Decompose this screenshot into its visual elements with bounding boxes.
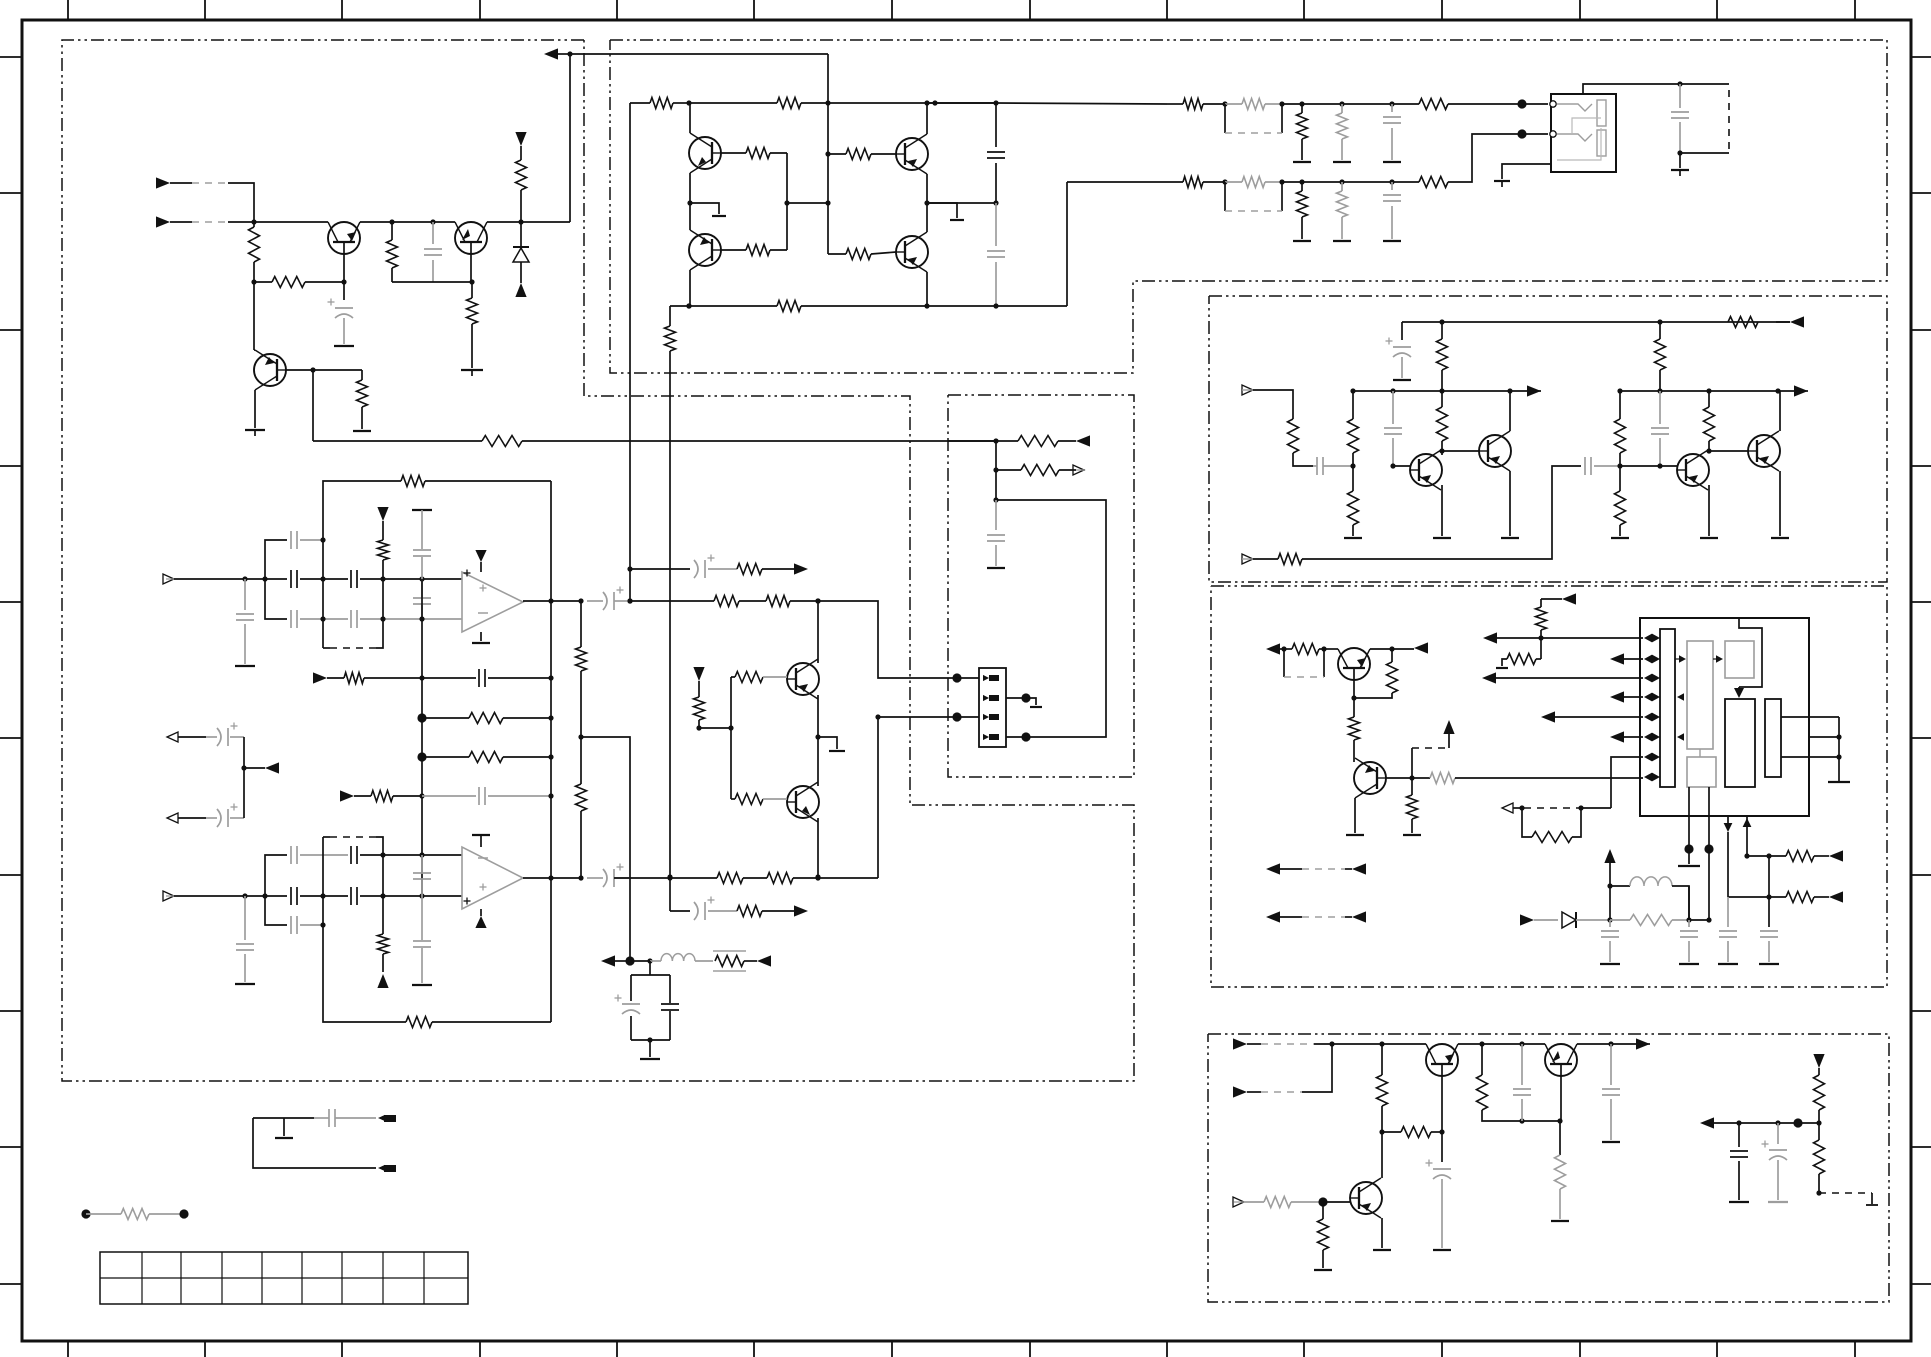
transistor Q3: [254, 354, 286, 386]
wire base node to bus: [787, 202, 828, 204]
resistor R75: [469, 713, 503, 724]
capacitor C14: [1659, 391, 1661, 424]
node E3: [1318, 1197, 1327, 1206]
stub Q5 gnd: [927, 203, 957, 218]
inductor L1: [1610, 885, 1630, 887]
input arrow E3: [1233, 1197, 1244, 1207]
dashed shield link: [1728, 90, 1730, 153]
capacitor C31: [1521, 1044, 1523, 1085]
bottom-left spare arrows: [1266, 863, 1280, 874]
wire Q9 emitter: [1509, 471, 1511, 536]
resistor R71: [378, 540, 389, 560]
pin arrows: [1644, 634, 1652, 643]
capacitor C5: [995, 103, 997, 147]
wire Q12 emitter: [1353, 680, 1355, 698]
wire in1 to corner: [228, 183, 254, 222]
input arrow F1: [163, 574, 174, 584]
ground bar C9: [1679, 153, 1681, 168]
wire Q7 collector: [926, 203, 928, 232]
right edge tick marks: [1911, 56, 1931, 58]
supply arrow E up: [1604, 849, 1615, 863]
capacitor C11: [1316, 457, 1318, 475]
arrow row6: [1610, 731, 1624, 742]
resistor R70: [401, 476, 425, 487]
arrow E right: [1700, 1117, 1714, 1128]
opamp gnd stem: [480, 632, 482, 641]
wire to Q12 base: [1324, 648, 1338, 650]
wire to jack R: [1522, 133, 1548, 135]
feedback top row: [323, 481, 401, 540]
arrow E in1: [1233, 1038, 1247, 1049]
arrow row3: [1482, 672, 1496, 683]
supply arrow up A2: [515, 283, 526, 297]
IC U1 inner block C: [1725, 699, 1755, 787]
arrow bias left: [601, 955, 615, 966]
resistor R25: [1183, 177, 1203, 188]
capacitor C65: [995, 500, 997, 530]
arrow D2 right: [1414, 642, 1428, 653]
resistor R95 link: [81, 1209, 90, 1218]
wire to Q16 base: [1323, 1201, 1350, 1203]
wire Q17 collector: [817, 601, 819, 663]
ground bar R48: [1403, 834, 1421, 836]
wire E rail3: [1577, 1043, 1639, 1045]
capacitor C22: [1760, 930, 1778, 932]
wire Q2 collector out: [487, 221, 521, 223]
IC U1 top link: [1739, 618, 1762, 687]
top edge tick marks: [67, 0, 69, 20]
ground bar Q2: [461, 369, 483, 371]
row F1c: [417, 752, 426, 761]
resistor R39: [1619, 466, 1621, 491]
wire rail to Q5 col: [935, 102, 996, 104]
grey row lower1: [265, 579, 287, 619]
wire U3 out: [523, 877, 581, 879]
row r2 resistor: [1728, 896, 1786, 898]
transistor Q11: [1748, 435, 1780, 467]
wire row2: [1067, 181, 1183, 183]
wire Q18 collector: [817, 737, 819, 786]
wire rail right: [828, 102, 935, 104]
resistor R21: [1242, 99, 1265, 110]
inner link E: [1699, 749, 1701, 757]
capacitor C75 polarized: [694, 560, 698, 578]
resistor R77: [580, 601, 582, 647]
capacitor C53: [350, 887, 352, 905]
capacitor C57 polarized: [603, 869, 607, 887]
resistor R63: [1559, 1121, 1561, 1155]
resistor R66: [1814, 1075, 1825, 1110]
resistor R61: [1382, 1131, 1401, 1133]
terminal bar C34: [1768, 1201, 1788, 1203]
wire out2: [614, 877, 717, 879]
resistor R16: [777, 301, 801, 312]
resistor R10: [650, 98, 673, 109]
transistor Q5: [896, 138, 928, 170]
wire Q2 emitter: [470, 254, 472, 282]
row5 wire: [1551, 716, 1643, 718]
diode D1: [520, 222, 522, 247]
resistor R74: [344, 673, 364, 684]
op-amp U3: [462, 847, 523, 909]
jack sleeve ground wire: [1502, 164, 1551, 179]
wire C-L out rail: [1353, 390, 1541, 392]
wire E right net: [1739, 1122, 1819, 1124]
resistor R50: [1540, 599, 1542, 607]
resistor R6: [361, 370, 363, 380]
resistor R13: [746, 245, 770, 256]
IC right stub1: [1781, 716, 1839, 718]
wire in1 dashed: [192, 182, 228, 184]
wire bus to Q7 base row: [828, 253, 846, 255]
dashed link row1: [1224, 104, 1226, 133]
wire E rail2: [1458, 1043, 1545, 1045]
resistor R22 shunt: [1297, 113, 1308, 139]
transistor Q15: [1545, 1044, 1577, 1076]
wire Q16 collector: [1381, 1132, 1383, 1178]
resistor R84: [371, 791, 393, 802]
wire to jack L: [1522, 103, 1548, 105]
bias RC box: [649, 961, 651, 975]
wire F2 in: [174, 895, 287, 897]
ground bar bias: [649, 1040, 651, 1057]
arrow D1 left: [1266, 643, 1280, 654]
IC right vertical: [1838, 717, 1840, 780]
wire Q3 collector lead: [254, 349, 256, 351]
terminal bar R6: [353, 430, 371, 432]
CN2 pin4: [989, 734, 999, 740]
supply arrow Q17: [693, 667, 704, 681]
block C boundary (line amp section): [1209, 296, 1887, 582]
capacitor C55: [350, 846, 352, 864]
wire Q8 emitter: [1441, 485, 1443, 536]
head in 1: [167, 732, 178, 742]
resistor R5: [516, 160, 527, 190]
dashed supply link: [1411, 748, 1413, 778]
arrow G2 open: [1073, 465, 1084, 475]
resistor R67: [1818, 1123, 1820, 1140]
input arrow C-R: [1242, 554, 1253, 564]
IC U1 top link arrow: [1734, 688, 1744, 698]
resistor R3: [391, 222, 393, 240]
jumper pin2: [384, 1165, 396, 1172]
capacitor C43: [350, 570, 352, 588]
jack pin circle L: [1550, 101, 1556, 107]
wire out to R72: [630, 600, 714, 602]
transistor Q16: [1350, 1182, 1382, 1214]
resistor R91: [996, 469, 1021, 471]
supply arrow down A1: [515, 132, 526, 146]
wire Q6 base: [721, 249, 746, 251]
IC right stub3: [1781, 756, 1839, 758]
wire Q3 base: [286, 369, 362, 371]
terminal bar C65: [987, 567, 1005, 569]
resistor R88: [737, 906, 762, 917]
wire B bottom rail: [670, 305, 777, 307]
wire Q11 emitter: [1779, 471, 1781, 536]
block B boundary (headphone amp section): [610, 40, 1887, 373]
terminal bar R23: [1333, 161, 1351, 163]
row F1a: [313, 672, 327, 683]
arrow C-R out: [1794, 385, 1808, 396]
resistor R81: [382, 855, 384, 934]
capacitor C8 shunt: [1391, 182, 1393, 190]
wire cap col r1: [1768, 856, 1770, 927]
resistor R47: [1353, 698, 1355, 717]
transistor Q8: [1410, 454, 1442, 486]
wire Q4 emitter: [689, 173, 691, 203]
capacitor C40: [244, 579, 246, 610]
resistor R52 loop: [1522, 808, 1532, 837]
wire G in row1: [948, 440, 996, 442]
terminal bar C40: [235, 665, 255, 667]
jack pin circle R: [1550, 131, 1556, 137]
resistor R17 tail: [669, 306, 671, 326]
wire G row2: [995, 441, 997, 470]
wire E rail1: [1332, 1043, 1426, 1045]
ground bar IC right: [1828, 781, 1850, 783]
row monitor R: [670, 910, 690, 912]
ground bar C10: [1393, 379, 1411, 381]
wire in2 dashed: [192, 221, 228, 223]
jack node R: [1517, 129, 1526, 138]
wire Q1 emitter: [343, 254, 345, 282]
wire Q9 collector: [1509, 391, 1511, 431]
wire C-R base: [1620, 465, 1677, 467]
capacitor C30 polarized: [1441, 1132, 1443, 1162]
capacitor C13: [1584, 457, 1586, 475]
transistor Q17: [787, 663, 819, 695]
resistor R53: [1610, 919, 1630, 921]
opamp2 gnd stem: [472, 834, 490, 836]
left edge tick marks: [0, 56, 22, 58]
resistor R46: [1391, 649, 1393, 662]
gnd jog Q17: [818, 737, 837, 749]
jumper pin1: [384, 1115, 396, 1122]
wire in2 to Q1 base: [254, 221, 328, 223]
arrow row5: [1541, 711, 1555, 722]
supply arrow F1: [377, 507, 388, 521]
IC U1 inner block D: [1765, 699, 1781, 777]
wire bottom rail right: [925, 305, 1067, 307]
wire Q5 collector: [926, 104, 928, 134]
resistor R32: [1659, 322, 1661, 339]
capacitor C63: [661, 1003, 679, 1005]
wire tail to lower: [669, 351, 671, 877]
wire E in1 dashed: [1261, 1043, 1314, 1045]
wire bias tie: [699, 727, 731, 729]
wire C top rail: [1402, 321, 1790, 323]
wire E in2 dashed: [1261, 1091, 1302, 1093]
block D boundary (control/IC section): [1211, 586, 1887, 987]
IC U1 inner block B: [1725, 641, 1754, 678]
inductor L2: [650, 960, 661, 962]
wire Q3 emitter: [254, 390, 256, 428]
resistor R7: [313, 440, 482, 442]
wire Q18 base row: [731, 798, 735, 800]
IC bottom pin1: [1688, 787, 1690, 849]
input arrow C-L: [1242, 385, 1253, 395]
capacitor C21: [1688, 920, 1690, 927]
resistor R27 shunt: [1297, 191, 1308, 217]
IC U1 outline: [1640, 618, 1809, 816]
bus vertical x828: [827, 54, 829, 254]
ground bar Q16: [1373, 1249, 1391, 1251]
transistor Q4: [689, 137, 721, 169]
IC U1 pin column: [1660, 629, 1675, 787]
arrow E out: [1636, 1038, 1650, 1049]
terminal bar R28: [1333, 240, 1351, 242]
ground bar R35: [1344, 537, 1362, 539]
dashed stub E: [1819, 1192, 1872, 1194]
resistor R24: [1419, 99, 1448, 110]
capacitor C44: [290, 610, 292, 628]
wire Q11 collector: [1779, 391, 1781, 431]
capacitor C58: [422, 795, 476, 797]
wire R3-C2 bottom: [392, 281, 472, 283]
arrow row1: [1483, 632, 1497, 643]
resistor R36: [1441, 391, 1443, 407]
capacitor C12: [1392, 391, 1394, 424]
terminal bar C7: [1383, 161, 1401, 163]
wire row1 to conn: [1282, 103, 1419, 105]
resistor R83: [767, 873, 793, 884]
wire G down: [995, 470, 997, 500]
ground bar R39: [1611, 537, 1629, 539]
wire Q3 collector: [253, 282, 255, 350]
wire Q17 base row: [731, 676, 735, 678]
resistor R72: [714, 596, 739, 607]
resistor R40: [1708, 391, 1710, 407]
transistor Q10: [1677, 454, 1709, 486]
ground bar Q3: [245, 429, 265, 431]
terminal bar C32: [1602, 1141, 1620, 1143]
input arrow F2: [163, 891, 174, 901]
row1 wire: [1492, 637, 1643, 639]
terminal bar below C1: [334, 345, 354, 347]
cap row upper2: [264, 895, 266, 897]
ground bar Q8: [1433, 537, 1451, 539]
wire x731: [730, 677, 732, 799]
wire Q6 collector: [689, 203, 691, 230]
ground bar jack: [1494, 180, 1510, 182]
CN2 pin2 gnd: [1006, 697, 1026, 699]
feedback bottom row: [323, 925, 406, 1022]
wire G loop: [996, 500, 1106, 737]
jumper plug wires: [253, 1117, 278, 1119]
capacitor C1 polarized: [343, 282, 345, 300]
stub center gnd: [690, 203, 719, 214]
wire Q1-Q2: [360, 221, 392, 223]
cap row1 upper: [265, 540, 287, 579]
dashed link D1: [1283, 649, 1285, 677]
resistor R2: [272, 277, 305, 288]
row r1 resistor: [1747, 855, 1786, 857]
cap C56 bottom: [421, 855, 423, 872]
wire C-L in: [1253, 390, 1293, 419]
capacitor C70: [328, 1109, 330, 1127]
wire diode node: [1607, 917, 1612, 922]
resistor R65: [1322, 1202, 1324, 1219]
capacitor C62 polarized: [622, 1003, 640, 1005]
wire F1 in: [174, 578, 287, 580]
resistor R76: [469, 752, 503, 763]
arrow r2: [1829, 891, 1843, 902]
ground bar Q9: [1501, 537, 1519, 539]
IC bottom pin3 arrow: [1727, 816, 1729, 830]
wire row855: [265, 855, 287, 896]
resistor R78: [576, 784, 587, 811]
jumper stub gnd: [283, 1118, 285, 1136]
capacitor C46: [413, 549, 431, 551]
wire rail R10-R11: [689, 102, 777, 104]
opamp supply down: [475, 550, 486, 562]
resistor R28 shunt: [1337, 191, 1348, 217]
ground IC pin1: [1688, 849, 1690, 864]
resistor R31: [1441, 322, 1443, 339]
wire B top rail: [629, 103, 631, 601]
diode D2: [1562, 912, 1576, 928]
capacitor C52: [290, 887, 292, 905]
resistor R29: [1419, 177, 1448, 188]
arrow C supply: [1790, 316, 1804, 327]
dashed row7 net: [1578, 805, 1583, 810]
capacitor C23: [1727, 897, 1729, 927]
arrow C-L out: [1527, 385, 1541, 396]
dashed link row2: [1224, 182, 1226, 211]
resistor R60: [1381, 1044, 1383, 1075]
resistor R20: [1183, 99, 1203, 110]
x551 vertical: [550, 481, 552, 1022]
capacitor C50: [244, 896, 246, 940]
resistor R23 shunt: [1337, 113, 1348, 139]
capacitor C33: [1738, 1123, 1740, 1147]
capacitor C9: [1679, 84, 1681, 108]
transistor Q12: [1338, 648, 1370, 680]
resistor R48: [1411, 778, 1413, 795]
ground bar C30: [1433, 1249, 1451, 1251]
node wire to top arrow: [567, 51, 572, 56]
resistor R30: [1728, 317, 1758, 328]
capacitor C60 polarized: [217, 728, 221, 746]
capacitor C54: [290, 846, 292, 864]
resistor R45: [1284, 648, 1292, 650]
wire Q3 base down: [312, 370, 314, 441]
IC U1 inner block E: [1687, 757, 1716, 787]
capacitor C41: [290, 531, 292, 549]
terminal bar C50: [235, 983, 255, 985]
wire Q12 collector out: [1370, 648, 1392, 650]
opamp2 marks: [478, 857, 488, 859]
resistor R85 special: [713, 950, 746, 952]
arrow row2: [1610, 653, 1624, 664]
capacitor C6: [995, 203, 997, 246]
wire Q8 collector: [1441, 451, 1443, 455]
wire in2: [228, 221, 254, 223]
jack internal link: [1572, 118, 1601, 134]
wire Q16 emitter: [1381, 1218, 1383, 1248]
resistor R1: [253, 222, 255, 227]
wire Q5 base row: [825, 151, 830, 156]
wire Q10C to Q11 base: [1709, 450, 1748, 452]
wire Q17 emitter: [817, 695, 819, 737]
transistor Q7: [896, 236, 928, 268]
op-amp U2: [462, 572, 523, 632]
block G boundary (head connector section): [948, 395, 1134, 777]
arrow D3: [1562, 593, 1576, 604]
resistor R34: [1352, 391, 1354, 419]
capacitor C20: [1609, 920, 1611, 927]
